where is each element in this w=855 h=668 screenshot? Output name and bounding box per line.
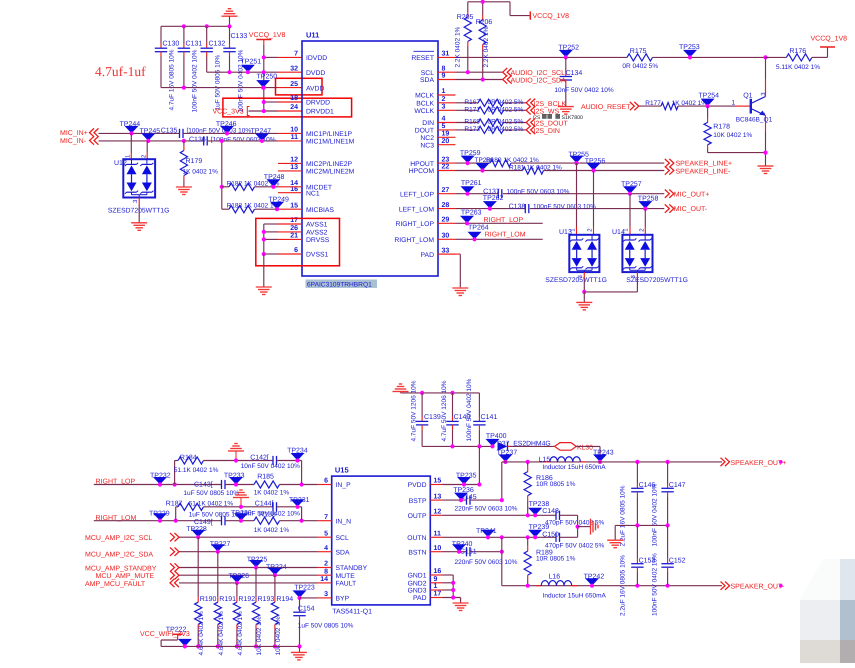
U11 pin 12 stub [278, 162, 302, 164]
svg-text:R183 1K 0402 1%: R183 1K 0402 1% [227, 203, 280, 210]
wire TP255 drop to U13 pin1 [576, 163, 578, 226]
test point TP234 [287, 447, 308, 460]
ground top of decoupling cap bank [222, 15, 238, 17]
svg-text:NC3: NC3 [420, 142, 434, 149]
junction RESET/R176/Q1 [763, 55, 767, 59]
svg-text:1: 1 [434, 583, 438, 590]
svg-text:8: 8 [324, 568, 328, 575]
svg-text:10: 10 [290, 127, 298, 134]
op-amp U11 audio codec body [302, 41, 438, 276]
wire SCL net [456, 71, 503, 73]
U15 pin 14 FAULT [320, 576, 356, 588]
capacitor C142 series [272, 456, 274, 465]
svg-text:U12: U12 [114, 160, 127, 167]
svg-text:KL30: KL30 [577, 445, 593, 452]
svg-text:16: 16 [434, 568, 442, 575]
diode D37 ES2DHM4G [498, 442, 508, 451]
wire upper branch 2 down to IN_N [301, 507, 303, 521]
capacitor C135 series [179, 129, 181, 138]
svg-text:TP256: TP256 [585, 158, 606, 165]
U11 pin 26 AVSS2 [290, 225, 327, 237]
wire HPOUT net y163 [456, 162, 491, 164]
test point TP252 [558, 45, 579, 58]
svg-text:DVDD: DVDD [306, 70, 325, 77]
svg-text:17: 17 [434, 591, 442, 598]
resistor R184 [178, 457, 204, 464]
U11 pin 8 SCL [421, 65, 446, 77]
U11 pin 23 stub [438, 162, 456, 164]
svg-text:30: 30 [442, 233, 450, 240]
resistor R169 on DIN [456, 122, 479, 124]
capacitor C143 series [221, 480, 223, 489]
svg-text:AVSS2: AVSS2 [306, 230, 328, 237]
svg-text:DVSS1: DVSS1 [306, 252, 329, 259]
resistor R179 [182, 139, 186, 143]
svg-text:4.7uf-1uf: 4.7uf-1uf [95, 64, 146, 79]
test point TP230 [231, 510, 252, 521]
resistor R180 [490, 160, 511, 167]
resistor R187 [178, 503, 204, 510]
U15 pin 16 GND1 [408, 568, 442, 580]
svg-text:TP241: TP241 [476, 528, 497, 535]
test point TP244 [120, 121, 141, 133]
wire SPEAKER_OUT+ line [502, 461, 722, 463]
U15 pin 1 stub [430, 589, 442, 591]
svg-text:PVDD: PVDD [408, 482, 427, 489]
svg-text:TP232: TP232 [150, 472, 171, 479]
svg-text:TP240: TP240 [452, 541, 473, 548]
U11 pin 32 DVDD [290, 65, 325, 77]
svg-text:13: 13 [290, 164, 298, 171]
svg-text:MCLK: MCLK [415, 93, 434, 100]
capacitor C149 series [221, 516, 223, 525]
junction dots on SPEAKER_OUT+ line [526, 460, 530, 464]
svg-text:14: 14 [320, 576, 328, 583]
test point TP257 [621, 181, 642, 194]
svg-text:TP261: TP261 [461, 180, 482, 187]
svg-text:TP248: TP248 [264, 174, 285, 181]
capacitor C140 [452, 393, 454, 417]
test point TP231 [289, 497, 310, 507]
svg-text:VCCQ_1V8: VCCQ_1V8 [533, 13, 570, 20]
resistor R193 [255, 568, 257, 598]
transistor Q1 BC846B [750, 99, 752, 114]
svg-text:R179: R179 [186, 158, 203, 165]
svg-text:Inductor 15uH 650mA: Inductor 15uH 650mA [542, 464, 606, 471]
U11 pin 18 DRVDD [290, 95, 330, 107]
test point TP236 [453, 487, 474, 500]
svg-text:OUTN: OUTN [407, 535, 426, 542]
resistor R190 [197, 537, 199, 597]
svg-text:100nF 50V 0402 10%: 100nF 50V 0402 10% [652, 553, 659, 616]
svg-text:TP233: TP233 [224, 472, 245, 479]
svg-text:6: 6 [324, 478, 328, 485]
wire C148/C150 common to ground [577, 515, 579, 537]
svg-text:R178: R178 [713, 123, 730, 130]
svg-text:R206: R206 [476, 19, 493, 26]
U15 pin 11 OUTN [407, 531, 441, 543]
svg-text:AMP_MCU_FAULT: AMP_MCU_FAULT [85, 581, 146, 588]
capacitor C130 [160, 26, 162, 43]
test point TP263 [460, 209, 482, 223]
svg-text:1K 0402 1%: 1K 0402 1% [254, 489, 290, 496]
svg-text:TP257: TP257 [621, 181, 642, 188]
wire TP258 drop to U14 pin2 [644, 209, 646, 227]
wire pin7 IDVDD [264, 56, 278, 58]
svg-text:C144[: C144[ [255, 500, 274, 508]
svg-text:C154: C154 [298, 605, 315, 612]
svg-text:31: 31 [442, 51, 450, 58]
svg-text:R191: R191 [219, 596, 236, 603]
U11 pin 15 MICBIAS [290, 202, 334, 214]
svg-text:RIGHT_LOM: RIGHT_LOM [485, 232, 526, 239]
svg-text:R184: R184 [180, 454, 197, 461]
svg-text:TP264: TP264 [468, 225, 489, 232]
svg-text:MIC_IN-: MIC_IN- [60, 138, 87, 145]
U11 pin 9 SDA [420, 73, 445, 85]
svg-text:C136: C136 [189, 136, 206, 143]
svg-text:0R 0402 5%: 0R 0402 5% [488, 99, 524, 106]
power symbol VCCQ_1V8 right [820, 46, 835, 48]
svg-text:SPEAKER_LINE-: SPEAKER_LINE- [676, 168, 732, 175]
wire rail DVDD y72 [207, 71, 278, 73]
capacitor C148 series [555, 511, 557, 520]
svg-text:TP224: TP224 [266, 564, 287, 571]
svg-text:DRVDD1: DRVDD1 [306, 109, 334, 116]
svg-text:MIC2P/LINE2P: MIC2P/LINE2P [306, 161, 353, 168]
capacitor C151 series [466, 547, 468, 556]
svg-text:BYP: BYP [336, 596, 350, 603]
U15 pin 2 stub [317, 567, 332, 569]
svg-text:15: 15 [290, 202, 298, 209]
wire rail to ground [299, 646, 301, 652]
inductor L16 [536, 585, 542, 587]
svg-text:1uF 50V 0805 10%: 1uF 50V 0805 10% [298, 622, 354, 629]
svg-text:WCLK: WCLK [414, 108, 434, 115]
wire SDA net [456, 79, 503, 81]
svg-text:TP249: TP249 [268, 197, 289, 204]
wire MIC bottom y140 [99, 140, 204, 142]
svg-text:L16: L16 [549, 573, 561, 580]
U15 pin 8 stub [317, 574, 332, 576]
U11 pin 12 MIC2P/LINE2P [290, 157, 352, 169]
capacitor C146 [636, 462, 638, 484]
svg-text:SDA: SDA [336, 549, 350, 556]
svg-text:HPOUT: HPOUT [410, 161, 434, 168]
capacitor C138 series [524, 204, 526, 213]
ground under C134 [558, 106, 574, 108]
U15 pin 12 stub [430, 514, 442, 516]
svg-text:R194: R194 [276, 596, 293, 603]
U11 pin 31 RESET [411, 51, 449, 63]
U15 pin 4 SDA [324, 545, 350, 557]
U15 pin 7 stub [317, 520, 332, 522]
U11 pin 16 NC1 [290, 186, 320, 198]
svg-text:4: 4 [324, 545, 328, 552]
svg-text:2.2K 0402 1%: 2.2K 0402 1% [483, 26, 490, 67]
U11 pin 7 IDVDD [294, 51, 327, 63]
U11 pin 10 MIC1P/LINE1P [290, 127, 352, 139]
svg-text:SPEAKER_OUT+: SPEAKER_OUT+ [731, 460, 787, 467]
svg-text:MIC1P/LINE1P: MIC1P/LINE1P [306, 131, 353, 138]
wire U13 pin3 to ground [583, 272, 585, 278]
wire TP257 drop to U14 pin1 [629, 194, 631, 227]
svg-text:MIC_IN+: MIC_IN+ [60, 130, 88, 137]
U15 pin 4 stub [317, 551, 332, 553]
svg-text:32: 32 [290, 65, 298, 72]
red highlight box DRVDD pins [223, 98, 352, 117]
svg-text:C143[: C143[ [194, 480, 213, 488]
svg-text:10K 0402 1%: 10K 0402 1% [713, 132, 752, 139]
svg-text:0R 0402 5%: 0R 0402 5% [488, 119, 524, 126]
svg-text:SCL: SCL [336, 535, 349, 542]
U11 pin 33 PAD [421, 247, 450, 258]
svg-text:1K 0402 1%: 1K 0402 1% [254, 527, 290, 534]
wire R187 branch up [175, 507, 177, 521]
svg-text:100nF 50V 0402 10%: 100nF 50V 0402 10% [652, 483, 659, 546]
test point TP245 [140, 128, 161, 141]
svg-text:AVDD: AVDD [306, 85, 324, 92]
svg-text:MIC2M/LINE2M: MIC2M/LINE2M [306, 169, 355, 176]
capacitor C144 series [272, 502, 274, 511]
svg-text:C148: C148 [542, 508, 559, 515]
wire U15 GND pins common [443, 574, 454, 576]
test point TP238 [528, 501, 549, 516]
svg-text:20: 20 [442, 138, 450, 145]
svg-text:MIC_OUT+: MIC_OUT+ [674, 191, 710, 198]
svg-text:NC2: NC2 [420, 135, 434, 142]
resistor R183 on MICBIAS [222, 208, 229, 210]
wire PVDD cap bank top rail [401, 392, 480, 394]
svg-text:TP245: TP245 [140, 128, 161, 135]
svg-text:4.7uF 50V 1206 10%: 4.7uF 50V 1206 10% [441, 380, 448, 441]
svg-text:TP228: TP228 [186, 526, 207, 533]
svg-text:TP250: TP250 [257, 74, 278, 81]
U15 pin 15 PVDD [408, 478, 442, 490]
svg-text:TP258: TP258 [638, 195, 659, 202]
wire MIC top y132 [99, 132, 180, 134]
U11 pin 24 DRVDD1 [290, 104, 334, 116]
svg-text:10R 0805 1%: 10R 0805 1% [536, 556, 576, 563]
capacitor C131 [183, 26, 185, 43]
wire pullup top rail to VCCQ_1V8 [468, 1, 510, 3]
svg-text:SPEAKER_LINE+: SPEAKER_LINE+ [676, 161, 733, 168]
resistor R175 [627, 54, 653, 61]
svg-text:C147: C147 [669, 482, 686, 489]
svg-text:R171: R171 [464, 106, 480, 113]
svg-text:TP234: TP234 [287, 447, 308, 454]
resistor R194 [274, 575, 276, 597]
svg-text:2.2K 0402 1%: 2.2K 0402 1% [455, 26, 462, 67]
svg-text:220nF 50V 0603 10%: 220nF 50V 0603 10% [455, 505, 518, 512]
ground output filter [607, 539, 623, 541]
U15 pin 2 STANDBY [324, 561, 367, 573]
svg-text:MICBIAS: MICBIAS [306, 207, 334, 214]
ground under U12 [131, 222, 147, 224]
test point TP400 [486, 433, 507, 446]
wire PVDD line [443, 484, 480, 486]
svg-text:11: 11 [291, 134, 299, 141]
test point TP235 [456, 473, 477, 485]
resistor R185 [254, 481, 280, 488]
fuse symbol KL30 [555, 443, 577, 451]
svg-text:C138: C138 [509, 203, 526, 210]
U15 pin 11 stub [430, 536, 442, 538]
ground right of snubber caps [590, 519, 592, 535]
svg-text:TP227: TP227 [210, 541, 231, 548]
wire upper branch down to IN_P [301, 461, 303, 485]
svg-text:23: 23 [442, 156, 450, 163]
capacitor C147 [667, 462, 669, 484]
U11 pin 8 stub [438, 71, 456, 73]
test point TP253 [679, 44, 700, 58]
svg-text:RIGHT_LOP: RIGHT_LOP [484, 217, 524, 224]
svg-text:TP262: TP262 [483, 195, 504, 202]
svg-text:HPCOM: HPCOM [409, 168, 435, 175]
mosaic blocks bottom right corner [800, 559, 855, 663]
U11 pin 13 stub [278, 170, 302, 172]
svg-text:5.11K 0402 1%: 5.11K 0402 1% [776, 64, 820, 71]
wire BYP [300, 597, 318, 599]
red highlight box AVDD pin [276, 78, 323, 95]
svg-text:VCCQ_1V8: VCCQ_1V8 [249, 32, 286, 39]
junction dots supply trunk [262, 55, 266, 59]
svg-text:5: 5 [324, 530, 328, 537]
capacitor C139 [421, 393, 423, 417]
svg-text:MCU_AMP_MUTE: MCU_AMP_MUTE [96, 573, 155, 580]
U15 pin 14 stub [317, 582, 332, 584]
svg-text:TP243: TP243 [593, 449, 614, 456]
wire MUTE to U15 [179, 574, 317, 576]
svg-text:C130: C130 [163, 41, 180, 48]
wire top rail of cap bank [161, 25, 230, 27]
svg-text:R176: R176 [789, 48, 806, 55]
wire BSTP line [443, 499, 467, 501]
svg-text:I2S_DIN: I2S_DIN [534, 128, 560, 135]
U15 pin 10 stub [430, 551, 442, 553]
ground under Q1 [758, 165, 774, 167]
U11 pin 16 stub [278, 192, 302, 194]
U11 pin 9 stub [438, 79, 456, 81]
svg-text:4.64K 0402 1%: 4.64K 0402 1% [218, 611, 225, 656]
U15 pin 1 GND3 [408, 583, 438, 595]
svg-text:TP247: TP247 [251, 128, 272, 135]
svg-text:TP225: TP225 [247, 557, 268, 564]
svg-text:26: 26 [290, 225, 298, 232]
svg-text:IDVDD: IDVDD [306, 55, 327, 62]
U15 pin 7 IN_N [324, 514, 351, 526]
test point TP226 [228, 573, 249, 583]
test point TP255 [568, 152, 589, 164]
svg-text:TP223: TP223 [294, 584, 315, 591]
svg-text:29: 29 [442, 217, 450, 224]
svg-text:DIN: DIN [422, 120, 434, 127]
test point TP241 [476, 528, 497, 537]
svg-text:TP263: TP263 [461, 209, 482, 216]
wire KL30 to TP243 corner [576, 445, 600, 447]
test point TP227 [210, 541, 231, 552]
capacitor C145 series [466, 496, 468, 505]
svg-text:SZESD7205WTT1G: SZESD7205WTT1G [626, 277, 688, 284]
svg-text:12: 12 [434, 509, 442, 516]
U15 pin 6 stub [317, 484, 332, 486]
U15 pin 3 stub [317, 597, 332, 599]
U11 pin 19 stub [438, 136, 456, 138]
svg-text:1K 0402 1%: 1K 0402 1% [183, 169, 219, 176]
svg-text:2: 2 [324, 561, 328, 568]
ground above input network 2 [233, 497, 249, 499]
svg-text:C131: C131 [186, 41, 203, 48]
svg-text:R181 1K 0402 1%: R181 1K 0402 1% [509, 164, 562, 171]
svg-text:15: 15 [434, 478, 442, 485]
svg-text:AUDIO_I2C_SDA: AUDIO_I2C_SDA [511, 77, 567, 84]
svg-text:27: 27 [442, 187, 450, 194]
wire RIGHT_LOM to IN_N [94, 520, 222, 522]
svg-text:MUTE: MUTE [336, 573, 356, 580]
wire BSTN line [443, 551, 467, 553]
resistor R178 [707, 106, 709, 117]
resistor R192 [236, 583, 238, 597]
U11 pin 23 HPOUT [410, 156, 449, 168]
svg-text:PAD: PAD [421, 252, 435, 259]
svg-text:51.1K 0402 1%: 51.1K 0402 1% [174, 467, 219, 474]
svg-text:GND1: GND1 [408, 573, 427, 580]
svg-text:TP239: TP239 [529, 524, 550, 531]
svg-text:MCU_AMP_I2C_SCL: MCU_AMP_I2C_SCL [85, 535, 152, 542]
svg-text:8: 8 [442, 65, 446, 72]
svg-text:FAULT: FAULT [336, 581, 357, 588]
part number 6PAIC3109TRHBRQ1 highlighted [306, 280, 378, 288]
test point TP243 [593, 449, 614, 462]
U15 pin 8 MUTE [324, 568, 355, 580]
resistor R181 [523, 167, 544, 174]
U11 pin 30 stub [438, 238, 456, 240]
U11 pin 1 stub [438, 94, 456, 96]
test point TP233 [224, 472, 245, 484]
svg-text:1: 1 [442, 88, 446, 95]
U11 pin 29 stub [438, 222, 456, 224]
wire C141 column to PVDD line [478, 446, 480, 484]
svg-text:10K 0402 1%: 10K 0402 1% [256, 616, 263, 655]
svg-text:220nF 50V 0603 10%: 220nF 50V 0603 10% [455, 559, 518, 566]
svg-text:TP231: TP231 [289, 497, 310, 504]
U11 pin 14 MICDET [290, 180, 332, 192]
svg-text:4.64K 0402 1%: 4.64K 0402 1% [198, 611, 205, 656]
svg-text:25: 25 [290, 81, 298, 88]
svg-text:7: 7 [294, 51, 298, 58]
svg-text:4.64K 0402 1%: 4.64K 0402 1% [237, 611, 244, 656]
svg-text:RIGHT_LOM: RIGHT_LOM [394, 237, 434, 244]
svg-text:4.7uF 16V 0805 10%: 4.7uF 16V 0805 10% [169, 49, 176, 110]
wire HPCOM net y171 [456, 170, 523, 172]
wire output filter mid rail to ground [615, 524, 667, 526]
test point TP228 [186, 526, 207, 537]
svg-text:IN_N: IN_N [336, 518, 352, 525]
svg-text:PAD: PAD [413, 595, 427, 602]
test point TP223 [293, 584, 315, 598]
U15 pin 15 stub [430, 484, 442, 486]
svg-text:7: 7 [324, 514, 328, 521]
svg-text:100nF 50V 0603 10%: 100nF 50V 0603 10% [507, 188, 570, 195]
U15 pin 5 SCL [324, 530, 349, 542]
U11 pin 17 AVSS1 [290, 217, 327, 229]
svg-text:C132: C132 [209, 41, 226, 48]
resistor R189 [527, 537, 529, 546]
resistor R167 on BCLK [456, 102, 479, 104]
wire pull resistor bottom rail [161, 645, 299, 647]
svg-text:GND2: GND2 [408, 581, 427, 588]
svg-text:R185: R185 [257, 473, 274, 480]
